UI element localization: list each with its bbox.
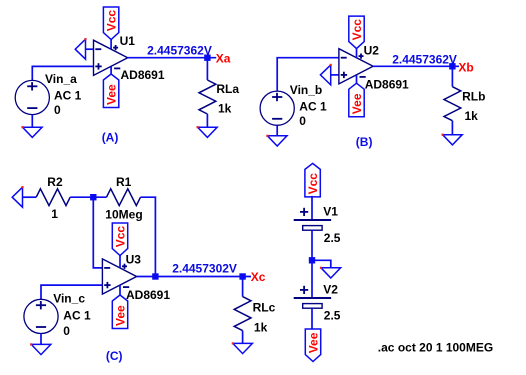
svg-text:AC 1: AC 1	[54, 88, 82, 102]
svg-text:(A): (A)	[102, 131, 119, 145]
resistor R1	[107, 189, 141, 206]
svg-text:0: 0	[63, 324, 70, 338]
ground at RLa	[197, 126, 218, 137]
svg-text:RLa: RLa	[216, 82, 239, 96]
svg-text:2.4457362V: 2.4457362V	[147, 44, 212, 58]
svg-text:AC 1: AC 1	[299, 100, 327, 114]
wire ground to U2 +in	[331, 74, 339, 76]
svg-text:Xb: Xb	[458, 60, 473, 74]
op-amp U2	[339, 49, 373, 84]
op-amp U3	[102, 259, 136, 294]
wire Vin_a to U1 +in	[32, 66, 93, 80]
wire ground to R2	[23, 196, 37, 198]
ground at RLb	[442, 134, 463, 145]
wire Xa to RLa	[206, 58, 208, 80]
resistor RLb	[444, 87, 461, 121]
wire RLa to ground	[206, 114, 208, 127]
voltage source V2 (battery)	[294, 286, 331, 308]
svg-text:Vcc: Vcc	[306, 173, 320, 195]
svg-text:1k: 1k	[465, 109, 479, 123]
wire V1 to V2	[311, 230, 313, 298]
junction node Xc	[239, 273, 245, 279]
wire Xb to RLb	[451, 66, 453, 86]
wire Vcc flag to V1	[311, 196, 313, 220]
voltage source V1 (battery)	[294, 208, 331, 230]
wire U1 V+ pin to Vcc flag	[110, 39, 112, 49]
wire junction to U3 -in	[93, 197, 102, 268]
svg-text:R1: R1	[116, 175, 132, 189]
Vcc flag at V1	[305, 163, 320, 197]
ground at RLc	[232, 342, 253, 353]
svg-text:(B): (B)	[356, 135, 373, 149]
svg-text:AC 1: AC 1	[63, 309, 91, 323]
svg-text:Vee: Vee	[307, 332, 321, 353]
voltage source Vin_b	[260, 91, 294, 125]
ground at Vin_b	[266, 135, 287, 146]
voltage source Vin_c	[24, 299, 58, 333]
svg-text:V2: V2	[323, 283, 338, 297]
wire U2 V+ pin to Vcc flag	[356, 49, 358, 58]
svg-text:AD8691: AD8691	[365, 78, 409, 92]
Vcc flag at U1	[103, 7, 118, 40]
svg-text:1k: 1k	[254, 321, 268, 335]
ground at U2 +in (rotated)	[320, 64, 331, 85]
svg-text:2.4457362V: 2.4457362V	[392, 52, 457, 66]
svg-text:Vin_b: Vin_b	[290, 83, 322, 97]
junction R2/R1/U3 -in	[90, 194, 96, 200]
Vcc flag at U2	[349, 16, 364, 49]
wire Vin_b to U2 -in	[277, 58, 339, 91]
wire Vin_c to ground	[40, 334, 42, 345]
svg-text:Vcc: Vcc	[350, 19, 364, 41]
svg-text:Vee: Vee	[114, 305, 128, 326]
Vee flag at U1	[103, 74, 118, 108]
wire Vin_c to U3 +in	[41, 285, 102, 299]
svg-text:R2: R2	[47, 175, 63, 189]
svg-text:Vin_c: Vin_c	[53, 291, 85, 305]
svg-text:Vcc: Vcc	[105, 10, 119, 32]
svg-text:2.5: 2.5	[324, 231, 341, 245]
svg-text:Vee: Vee	[105, 84, 119, 105]
ground at Vin_a	[21, 126, 42, 137]
svg-text:0: 0	[299, 114, 306, 128]
junction V1/V2 midpoint	[309, 257, 315, 263]
resistor R2	[36, 189, 70, 206]
resistor RLa	[199, 80, 216, 114]
svg-text:AD8691: AD8691	[126, 288, 170, 302]
wire U3 output to node Xc	[137, 276, 251, 278]
wire U3 V+ pin to Vcc flag	[119, 256, 121, 268]
svg-text:U2: U2	[364, 44, 380, 58]
svg-text:Xc: Xc	[251, 270, 266, 284]
svg-text:.ac oct 20 1 100MEG: .ac oct 20 1 100MEG	[378, 340, 493, 354]
wire U1 V- pin to Vee flag	[110, 66, 112, 74]
svg-text:RLb: RLb	[462, 90, 485, 104]
ground at Vin_c	[30, 343, 51, 354]
junction feedback/output	[152, 273, 158, 279]
svg-text:Vee: Vee	[350, 93, 364, 114]
wire U2 output to node Xb	[373, 65, 459, 67]
svg-text:Vin_a: Vin_a	[45, 72, 77, 86]
resistor RLc	[234, 297, 251, 331]
junction node Xa	[204, 55, 210, 61]
wire U3 V- pin to Vee flag	[119, 285, 121, 295]
wire ground to U1 -in	[86, 48, 94, 50]
svg-text:10Meg: 10Meg	[105, 208, 142, 222]
svg-text:1: 1	[51, 207, 58, 221]
op-amp U1	[94, 40, 128, 75]
svg-text:U3: U3	[126, 253, 142, 267]
wire Vin_b to ground	[276, 125, 278, 136]
svg-text:V1: V1	[323, 205, 338, 219]
wire RLc to ground	[242, 331, 244, 344]
wire R2 to R1	[70, 196, 106, 198]
junction node Xb	[449, 63, 455, 69]
svg-text:2.4457302V: 2.4457302V	[172, 261, 237, 275]
Vcc flag at U3	[112, 223, 127, 256]
ground at R2 (rotated)	[12, 186, 23, 207]
wire midpoint to ground	[312, 260, 331, 268]
ground at supply midpoint	[320, 267, 341, 278]
wire U2 V- pin to Vee flag	[356, 75, 358, 83]
wire Vin_a to ground	[31, 115, 33, 128]
Vee flag at V2	[305, 329, 320, 362]
wire RLb to ground	[451, 121, 453, 135]
wire V2 to Vee flag	[311, 308, 313, 329]
svg-text:(C): (C)	[106, 349, 123, 363]
svg-text:Xa: Xa	[216, 52, 231, 66]
svg-text:RLc: RLc	[253, 301, 276, 315]
wire R1 to U3 output (feedback)	[141, 197, 156, 276]
svg-text:U1: U1	[120, 34, 136, 48]
ground at U1 -in (rotated)	[75, 38, 86, 59]
svg-text:0: 0	[54, 103, 61, 117]
wire Xc to RLc	[242, 277, 244, 297]
svg-text:Vcc: Vcc	[114, 226, 128, 248]
voltage source Vin_a	[15, 80, 49, 114]
wire U1 output to node Xa	[128, 57, 217, 59]
Vee flag at U3	[112, 295, 127, 329]
svg-text:1k: 1k	[218, 102, 232, 116]
svg-text:2.5: 2.5	[324, 308, 341, 322]
svg-text:AD8691: AD8691	[121, 68, 165, 82]
Vee flag at U2	[349, 83, 364, 117]
